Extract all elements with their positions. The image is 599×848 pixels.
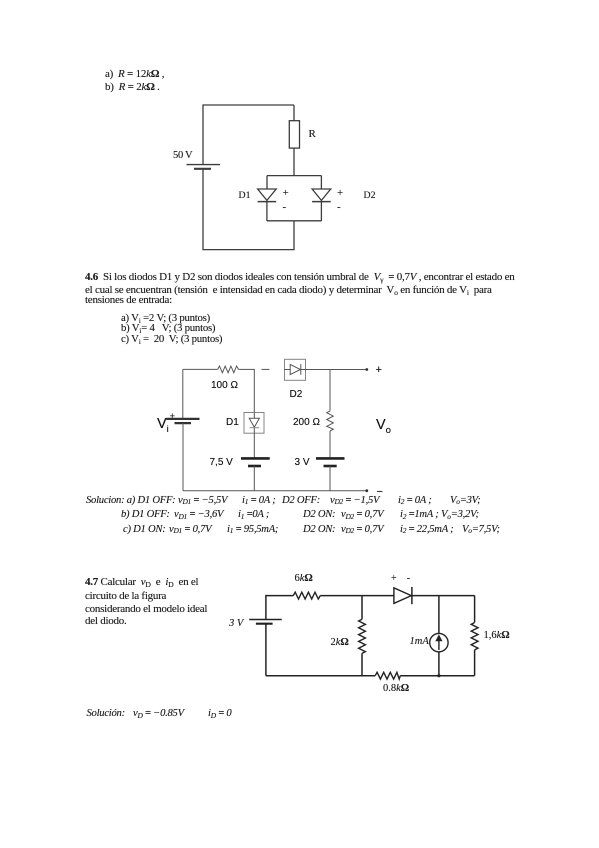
wire: Vi battery top lead [182, 369, 184, 418]
battery Vi long plate [166, 418, 199, 420]
label diode + [391, 574, 397, 584]
label diode - [407, 574, 410, 584]
battery 3V short plate [256, 623, 273, 625]
battery 3V long plate [249, 619, 282, 621]
label - output [377, 487, 383, 498]
label D2 - [337, 202, 341, 213]
wire: right branch lower [474, 650, 476, 676]
diode D1 cathode bar [258, 201, 277, 203]
wire: D2 anode lead [320, 176, 322, 189]
wire: 7.5V battery to bottom rail [253, 466, 255, 491]
wire: center down lead [293, 221, 295, 250]
wire: 200 ohm branch top lead [329, 370, 331, 411]
label D1 + [283, 188, 289, 199]
resistor 1.6k [471, 623, 478, 650]
resistor 200 ohm [327, 411, 334, 431]
diode D1 [258, 189, 277, 200]
diode D2 cathode bar [300, 364, 302, 375]
label Vi [157, 417, 169, 432]
diode D1 box [244, 413, 264, 434]
wire: Vi battery bottom lead [182, 423, 184, 491]
wire: top rail mid segment [320, 595, 394, 597]
battery Vi short plate [175, 422, 192, 424]
wire: left branch lower [265, 624, 267, 676]
wire: diode box top [267, 175, 321, 177]
wire: bottom rail left segment [266, 675, 375, 677]
label R [309, 129, 316, 140]
wire: bottom rail [202, 249, 294, 251]
diode D1 cathode bar [250, 427, 259, 429]
resistor 2k [359, 619, 366, 653]
current source arrow [438, 641, 440, 650]
wire: top rail right segment [412, 595, 475, 597]
wire: floating dash before D2 box [262, 368, 270, 370]
wire: bottom rail right segment [400, 675, 474, 677]
wire: resistor bottom lead [293, 148, 295, 176]
wire: current source bottom lead [438, 652, 440, 676]
diode D2 cathode bar [312, 201, 331, 203]
label 6k ohm [295, 574, 313, 585]
wire: left branch lower [202, 169, 204, 250]
label 7,5 V [210, 458, 233, 468]
label 200 ohm [293, 418, 320, 428]
label D1 of box [226, 418, 239, 428]
label Vo [376, 418, 391, 433]
diode D2 box [285, 359, 306, 380]
label 100 ohm [211, 381, 238, 391]
wire: D2 cathode lead [320, 202, 322, 221]
label 0.8k ohm [383, 684, 409, 695]
wire: resistor top lead [293, 105, 295, 121]
resistor 100 ohm [218, 366, 240, 373]
label 1mA [410, 637, 429, 648]
label D1 - [283, 202, 287, 213]
label D2 of box [290, 390, 303, 400]
wire: D2 inner leads [285, 369, 306, 371]
wire: top rail left segment [266, 595, 293, 597]
wire: 2k branch bottom lead [361, 653, 363, 675]
node: + output terminal [365, 368, 368, 371]
wire: left branch upper [265, 595, 267, 620]
label D1 [239, 191, 251, 201]
node: junction bottom [437, 674, 440, 677]
wire: current source top lead [438, 596, 440, 634]
diode D [394, 588, 411, 604]
label + output [376, 365, 382, 376]
diode D2 [312, 189, 331, 200]
wire: left branch upper [202, 104, 204, 164]
current source 1mA [430, 633, 448, 651]
wire: bottom rail [183, 490, 367, 492]
wire: top rail right segment [306, 369, 367, 371]
battery 3V short plate [324, 465, 337, 468]
wire: D1 cathode lead [266, 202, 268, 221]
label 50 V [173, 151, 192, 162]
label + of Vi [170, 412, 176, 422]
wire: top rail left segment [183, 368, 218, 370]
resistor 0.8k [375, 672, 400, 679]
wire: D1 inner leads [253, 413, 255, 434]
battery 50V short plate [194, 168, 211, 170]
label 1,6k ohm [484, 631, 510, 642]
battery 50V long plate [187, 164, 221, 166]
wire: D1 anode lead [266, 176, 268, 189]
diode D1 [249, 418, 259, 427]
node: - output terminal [365, 489, 368, 492]
battery 7.5V long plate [241, 457, 270, 460]
battery 3V long plate [316, 457, 345, 460]
wire: D1 branch top lead [253, 369, 255, 412]
wire: top rail [203, 104, 294, 106]
diode D cathode bar [411, 587, 413, 604]
resistor 6k [293, 592, 320, 599]
wire: D1 to 7.5V battery [253, 433, 255, 458]
wire: top rail mid segment [239, 368, 255, 370]
label 2k ohm [331, 638, 349, 649]
wire: 2k branch top lead [361, 596, 363, 620]
wire: diode box bottom [267, 220, 321, 222]
label D2 [364, 191, 376, 201]
diode D2 [290, 364, 300, 374]
label 3 V [229, 619, 243, 630]
wire: right branch upper [474, 596, 476, 623]
resistor R body [289, 121, 299, 148]
battery 7.5V short plate [248, 465, 261, 468]
label D2 + [337, 188, 343, 199]
label 3 V [295, 458, 310, 468]
wire: 3V battery to bottom rail [329, 466, 331, 491]
wire: 200 ohm to 3V battery [329, 431, 331, 458]
